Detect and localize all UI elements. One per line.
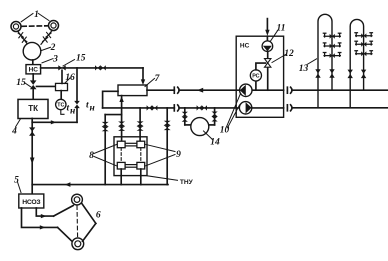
svg-text:ТК: ТК (28, 104, 38, 113)
svg-text:14: 14 (210, 137, 220, 147)
svg-text:НСОЗ: НСОЗ (22, 199, 40, 206)
svg-text:3: 3 (52, 54, 58, 64)
svg-text:16: 16 (65, 73, 75, 83)
svg-text:6: 6 (96, 210, 101, 220)
svg-text:1: 1 (34, 10, 39, 20)
svg-text:8: 8 (89, 151, 94, 161)
svg-text:13: 13 (299, 64, 309, 74)
svg-text:4: 4 (11, 126, 17, 136)
svg-text:н: н (90, 104, 95, 114)
svg-text:НС: НС (240, 43, 250, 50)
svg-text:15: 15 (16, 78, 26, 88)
svg-text:15: 15 (76, 53, 86, 63)
svg-text:2: 2 (50, 43, 56, 53)
svg-text:НС: НС (29, 66, 39, 73)
svg-text:н: н (70, 107, 75, 117)
svg-text:9: 9 (176, 150, 181, 160)
svg-text:12: 12 (284, 49, 294, 59)
svg-text:РС: РС (252, 73, 259, 79)
svg-text:10: 10 (220, 126, 230, 136)
svg-text:ТС: ТС (57, 103, 64, 109)
svg-text:11: 11 (277, 23, 286, 33)
svg-text:ТНУ: ТНУ (180, 179, 194, 186)
svg-text:5: 5 (14, 176, 19, 186)
